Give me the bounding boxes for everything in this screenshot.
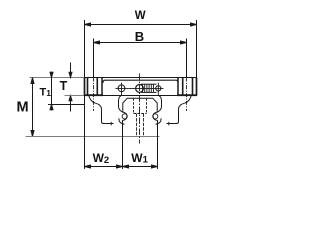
block right skirt <box>166 96 191 124</box>
left ball <box>122 114 127 119</box>
block underside / flange bottom line <box>84 95 197 97</box>
right ear inner edge <box>177 78 179 96</box>
svg-text:W: W <box>135 10 146 22</box>
top tapped hole left vertical crosshair <box>121 83 123 96</box>
dimension T line with outside arrows <box>69 63 72 112</box>
dimension B label <box>135 29 144 44</box>
rail bolt counterbore hidden lines <box>134 98 147 113</box>
dimension M line <box>31 78 34 137</box>
top tapped hole right vertical crosshair <box>157 83 159 96</box>
dimension B line <box>94 41 187 44</box>
left ear bottom thick band <box>84 94 103 96</box>
block left cavity wall <box>119 96 124 113</box>
top tapped hole right circle <box>156 86 161 91</box>
dimension M label <box>17 100 29 116</box>
extension line W1 left (rail left edge) <box>122 137 124 170</box>
grease nipple barrel <box>141 84 156 92</box>
block left lower flank <box>119 118 124 124</box>
left ear bolt hole wall left <box>87 78 89 95</box>
right ear hole centerline <box>186 78 188 112</box>
right ball <box>153 114 158 119</box>
rail outline <box>123 98 158 136</box>
block recessed top face line <box>103 80 178 83</box>
dimension T label <box>60 79 68 93</box>
right ear bottom thick band <box>177 94 197 96</box>
extension line T bottom (gray) <box>65 95 85 97</box>
dimension T1 label <box>40 86 52 98</box>
top holes horizontal centerline <box>116 87 164 89</box>
block section centerline <box>139 74 141 144</box>
left seal tick <box>110 122 112 126</box>
left ear inner edge <box>101 78 103 96</box>
grease nipple head circle <box>136 85 144 93</box>
extension line T1 bottom <box>48 104 85 106</box>
dimension W2 line <box>85 165 123 168</box>
extension line bottom face (gray) <box>26 136 160 138</box>
right seal tick <box>168 122 170 126</box>
block right flange edge <box>196 78 198 96</box>
svg-text:M: M <box>17 100 29 116</box>
top tapped hole left circle <box>118 85 125 92</box>
dimension T1 line with outside arrows <box>50 72 53 111</box>
extension line B right <box>186 39 188 78</box>
block left flange edge <box>84 78 86 96</box>
block top rim line <box>84 77 197 79</box>
extension line W2 left <box>84 96 86 169</box>
block right cavity wall <box>157 96 162 113</box>
dimension W1 line <box>123 165 158 168</box>
svg-text:B: B <box>135 29 144 44</box>
block left skirt <box>89 96 114 124</box>
left ear bolt hole wall right <box>96 78 98 95</box>
right ear bolt hole wall left <box>182 78 184 95</box>
dimension W line <box>85 23 197 26</box>
right ear bolt hole wall right <box>192 78 194 95</box>
svg-text:T: T <box>60 79 68 93</box>
extension line W left <box>84 20 86 78</box>
extension line W right <box>196 20 198 78</box>
dimension W1 label <box>131 151 148 166</box>
extension line W1 right (rail right edge) <box>157 137 159 170</box>
rail bolt through-hole hidden lines <box>137 114 144 137</box>
svg-text:T1: T1 <box>40 86 52 98</box>
grease nipple thread lines <box>143 84 154 92</box>
extension line top face (gray, to left dims) <box>30 77 85 79</box>
left ear hole centerline <box>93 78 95 112</box>
extension line B left <box>93 39 95 78</box>
block right lower flank <box>156 118 161 124</box>
dimension W label <box>135 10 146 22</box>
dimension W2 label <box>93 151 110 166</box>
